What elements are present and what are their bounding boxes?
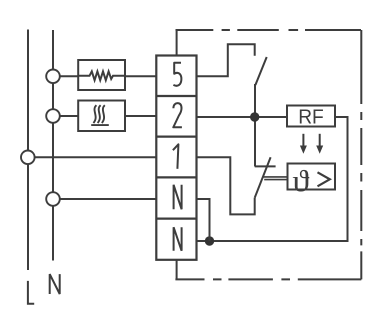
wire L to terminal 1 <box>28 156 156 158</box>
wire terminal 1 to thermostat blade <box>197 157 255 214</box>
wire switch common <box>254 84 256 166</box>
RF signal arrow right <box>316 134 323 154</box>
wire L line <box>27 30 29 271</box>
wire terminal N to junction <box>197 199 210 241</box>
terminal N label <box>174 185 182 210</box>
terminal node circle (L feed) <box>21 151 35 165</box>
thermostat switch blade <box>255 157 271 198</box>
wire heater feed <box>53 115 78 117</box>
RF signal arrow left <box>300 134 307 154</box>
heater load box <box>78 101 125 132</box>
terminal node circle (N feed) <box>46 192 60 206</box>
terminal node circle (resistor feed) <box>46 70 60 84</box>
resistor zigzag <box>78 71 125 80</box>
enclosure border top (dash-dot) <box>176 29 362 31</box>
heater element symbol <box>91 105 109 125</box>
terminal 5 label <box>173 63 181 86</box>
enclosure border bottom (dash-dot) <box>175 278 361 280</box>
RF receiver box <box>287 106 335 127</box>
terminal 2 label <box>173 103 182 127</box>
thermostat contact bar <box>255 165 276 167</box>
label N <box>50 274 60 294</box>
wire resistor feed <box>53 75 78 77</box>
terminal 1 label <box>173 144 179 169</box>
enclosure border right (dash-dot) <box>360 30 362 279</box>
terminal block frame <box>156 56 196 260</box>
terminal node circle (heater feed) <box>46 109 60 123</box>
svg-text:ϑ: ϑ <box>292 164 310 198</box>
wire block top to enclosure <box>176 30 178 56</box>
wire N line <box>52 30 54 261</box>
label L <box>28 281 34 304</box>
wire heater to terminal 2 <box>125 115 156 117</box>
svg-text:RF: RF <box>298 106 324 128</box>
junction dot A <box>250 112 259 121</box>
relay switch blade <box>255 57 266 85</box>
wire terminal 5 to relay contact <box>197 44 255 76</box>
label greater-than <box>318 172 330 186</box>
thermostat box <box>288 164 336 190</box>
wire N to terminal N <box>53 198 156 200</box>
junction dot B <box>205 236 214 245</box>
wire resistor to terminal 5 <box>125 75 156 77</box>
wire block bottom to enclosure <box>176 260 178 280</box>
resistor load box <box>78 60 125 90</box>
terminal N label (second) <box>174 227 182 251</box>
thermostat linkage (double line) <box>263 177 287 180</box>
wire RF output to N junction <box>197 117 348 241</box>
wire terminal 2 to RF <box>197 116 288 118</box>
